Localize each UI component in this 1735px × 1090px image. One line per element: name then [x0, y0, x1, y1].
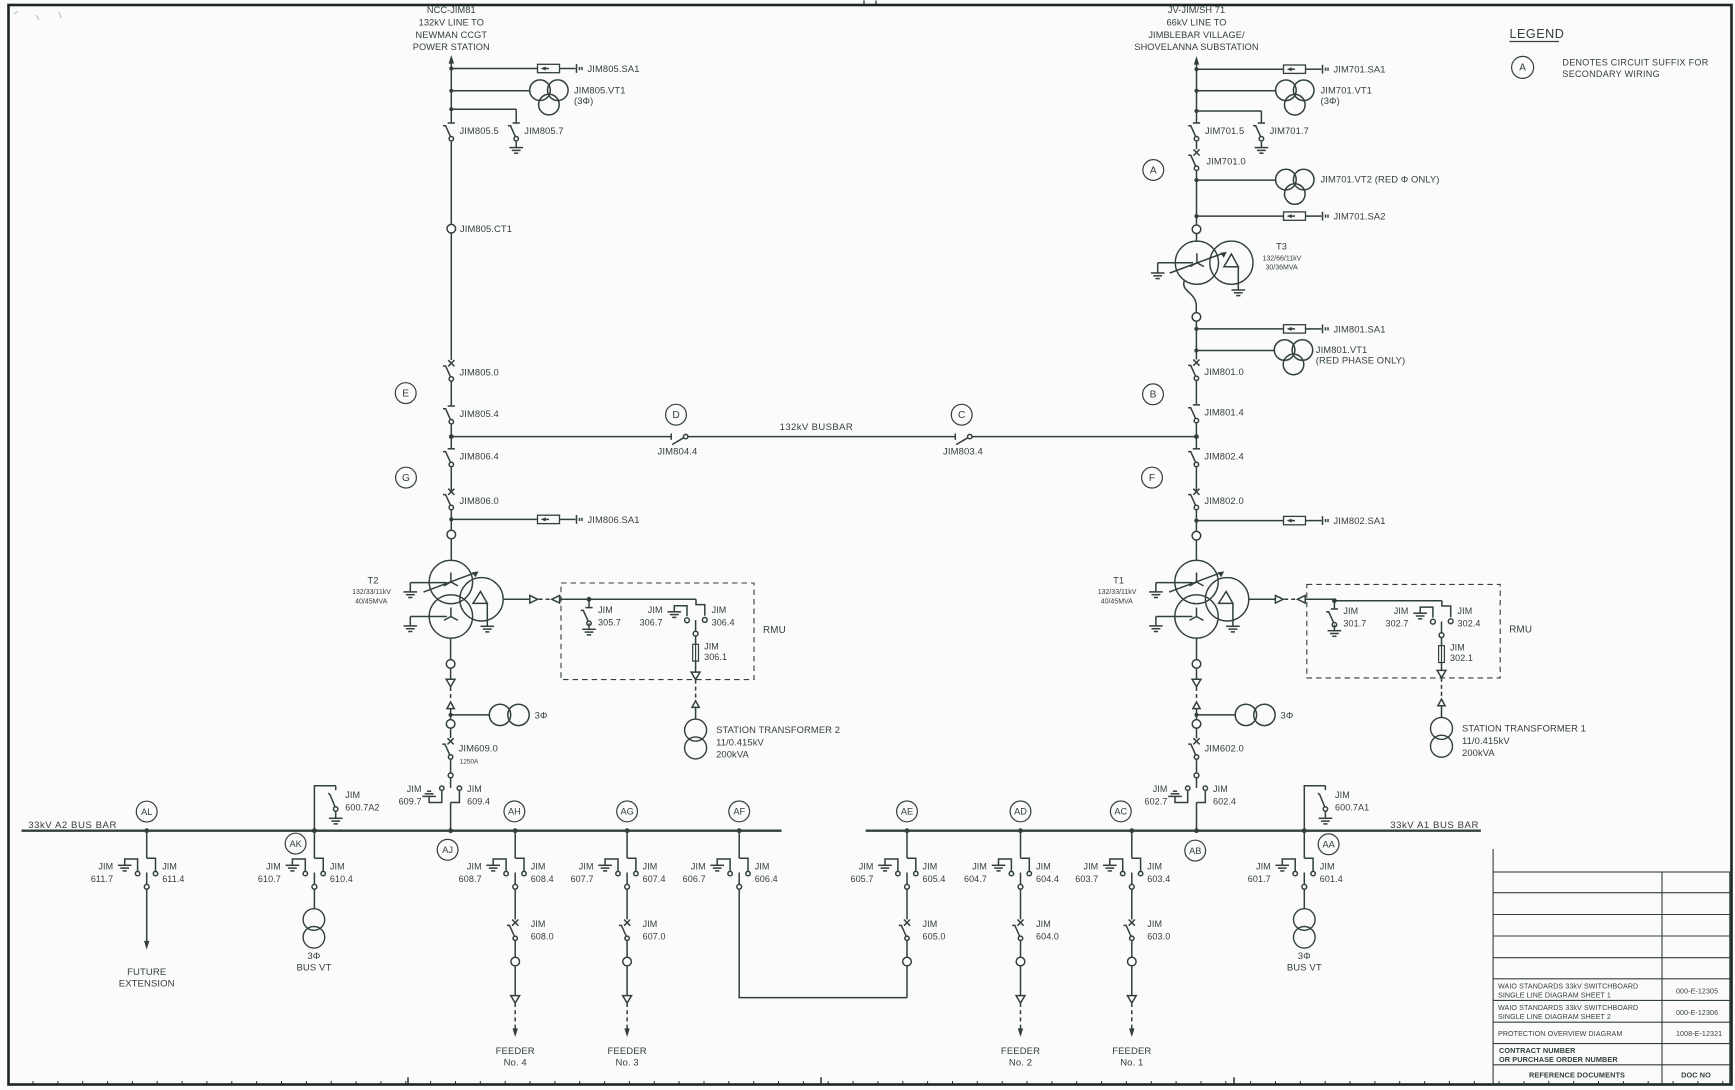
RMU internal wire: [1334, 600, 1442, 602]
LV delta ground: [1237, 267, 1239, 290]
HV neutral wire: [1156, 582, 1193, 584]
earth switch JIM805.7: [513, 122, 520, 124]
transformer T2 tertiary winding: [460, 578, 503, 621]
LV neutral wire: [1156, 616, 1193, 618]
wire: [1196, 170, 1198, 225]
svg-text:JIM806.4: JIM806.4: [460, 451, 499, 462]
svg-text:JIM: JIM: [1256, 862, 1271, 872]
transformer T1 HV winding: [1175, 560, 1218, 603]
circuit breaker JIM 603.0: [1129, 920, 1135, 926]
surge arrester JIM802.SA1: [1194, 519, 1198, 523]
circuit suffix F: [1142, 467, 1163, 488]
truck contact: [313, 873, 315, 885]
svg-text:E: E: [402, 388, 409, 399]
svg-text:611.7: 611.7: [91, 874, 113, 884]
withdrawable feeder JIM603: [1129, 828, 1134, 833]
feeder arrow: [514, 1026, 516, 1030]
svg-text:No. 2: No. 2: [1009, 1057, 1032, 1068]
svg-text:605.0: 605.0: [923, 931, 946, 941]
ground: [598, 864, 612, 866]
dashed cable: [1196, 687, 1198, 701]
earth contact 602.7: [1186, 786, 1190, 790]
current transformer: [1192, 531, 1201, 540]
circuit suffix B: [1143, 384, 1164, 405]
busbar contact 302.4: [1448, 619, 1453, 624]
ground: [1319, 817, 1333, 819]
busbar contact 602.4: [1203, 786, 1207, 790]
svg-text:JIM: JIM: [755, 862, 770, 872]
star symbol: [1190, 253, 1204, 266]
wire: [450, 709, 452, 739]
fuse 306.1: [693, 644, 699, 661]
wire: [450, 510, 452, 531]
voltage transformer JIM801.VT1: [1194, 348, 1198, 352]
svg-text:EXTENSION: EXTENSION: [119, 979, 175, 990]
cable head arrow: [447, 702, 454, 709]
bus voltage transformer: [303, 909, 325, 931]
svg-text:306.1: 306.1: [704, 652, 727, 662]
earth contact 606.7: [717, 859, 730, 871]
wire riser from bus: [146, 831, 148, 859]
title block: [1493, 849, 1730, 1084]
svg-text:606.4: 606.4: [755, 874, 778, 884]
tap changer arrow: [1170, 253, 1224, 273]
svg-text:SHOVELANNA SUBSTATION: SHOVELANNA SUBSTATION: [1134, 42, 1258, 52]
svg-text:66kV LINE TO: 66kV LINE TO: [1166, 17, 1226, 27]
wire riser from bus: [313, 831, 315, 859]
wire future extension: [146, 889, 148, 941]
busbar contact 606.4: [739, 858, 748, 871]
truck contact: [1303, 873, 1305, 885]
wire riser from bus: [1303, 831, 1305, 859]
circuit suffix AC: [1110, 801, 1131, 822]
current transformer: [1128, 957, 1137, 966]
svg-text:AE: AE: [901, 807, 913, 817]
circuit breaker JIM 607.0: [624, 920, 630, 926]
transformer T2 HV winding: [429, 560, 472, 603]
svg-text:JIM: JIM: [407, 784, 422, 794]
ground: [118, 864, 132, 866]
current transformer: [1192, 660, 1201, 669]
svg-text:LEGEND: LEGEND: [1510, 27, 1565, 41]
svg-text:JIM: JIM: [1450, 643, 1465, 653]
circuit suffix AH: [504, 801, 525, 822]
circuit suffix AE: [897, 801, 918, 822]
svg-text:JIM: JIM: [1147, 862, 1162, 872]
svg-text:JIM805.4: JIM805.4: [460, 408, 499, 419]
svg-text:JIM: JIM: [1153, 784, 1168, 794]
wire: [1195, 321, 1197, 359]
withdrawable feeder JIM605: [905, 828, 910, 833]
wire: [450, 466, 452, 491]
wire: [1441, 706, 1443, 718]
svg-text:604.4: 604.4: [1036, 874, 1059, 884]
svg-text:B: B: [1150, 390, 1157, 401]
line arrow up: [449, 55, 454, 64]
svg-text:603.7: 603.7: [1075, 874, 1098, 884]
withdrawable feeder JIM610 (bus VT): [312, 828, 317, 833]
svg-text:602.4: 602.4: [1213, 796, 1236, 806]
earth switch JIM701.7: [1258, 122, 1265, 124]
circuit breaker JIM802.0: [1193, 489, 1199, 495]
svg-text:FEEDER: FEEDER: [1001, 1046, 1040, 1057]
ground: [992, 864, 1006, 866]
earth contact 605.7: [885, 859, 898, 871]
withdrawable feeder JIM611 (future): [144, 828, 149, 833]
svg-text:609.4: 609.4: [467, 796, 490, 806]
svg-text:No. 4: No. 4: [504, 1057, 527, 1068]
svg-text:AH: AH: [508, 807, 521, 817]
wire: [450, 759, 452, 773]
svg-text:JIM802.SA1: JIM802.SA1: [1334, 515, 1386, 526]
svg-text:JIM: JIM: [467, 862, 482, 872]
dashed cable: [450, 687, 452, 701]
svg-text:1250A: 1250A: [460, 759, 479, 766]
svg-text:JIM: JIM: [1458, 606, 1473, 616]
tap changer arrow: [424, 572, 476, 592]
svg-text:AC: AC: [1114, 807, 1127, 817]
current transformer: [511, 957, 520, 966]
svg-text:302.7: 302.7: [1385, 619, 1408, 629]
circuit breaker JIM602.0: [1193, 738, 1199, 744]
svg-text:No. 3: No. 3: [615, 1057, 638, 1068]
svg-text:AL: AL: [141, 807, 152, 817]
svg-text:JIM602.0: JIM602.0: [1205, 743, 1244, 754]
svg-text:T1: T1: [1113, 576, 1124, 586]
dashed cable: [695, 680, 697, 701]
wire into T3: [1196, 234, 1198, 242]
truck contact: [626, 873, 628, 885]
withdrawable feeder JIM606 (interconnector): [737, 828, 742, 833]
cable head arrow: [692, 701, 699, 708]
current transformer: [446, 720, 455, 729]
surge arrester JIM801.SA1: [1194, 327, 1198, 331]
ground: [1276, 864, 1290, 866]
wire: [1195, 466, 1197, 491]
feeder arrow: [1020, 1026, 1022, 1030]
dashed cable: [539, 598, 552, 600]
svg-text:WAIO STANDARDS 33kV SWITCHBOAR: WAIO STANDARDS 33kV SWITCHBOARD: [1498, 1004, 1638, 1012]
wire: [626, 889, 628, 919]
svg-text:JIM803.4: JIM803.4: [943, 447, 983, 458]
truck contact: [514, 873, 516, 885]
svg-text:11/0.415kV: 11/0.415kV: [1462, 735, 1510, 746]
LV neutral ground: [409, 617, 411, 626]
connector arrow: [530, 596, 538, 604]
withdrawable feeder JIM604: [1018, 828, 1023, 833]
svg-text:200kVA: 200kVA: [716, 749, 749, 760]
current transformer: [1192, 313, 1201, 322]
wire: [514, 889, 516, 919]
circuit suffix C: [951, 404, 972, 425]
truck contact: [448, 773, 453, 778]
HV neutral ground: [1157, 263, 1159, 273]
svg-text:JIM805.VT1: JIM805.VT1: [574, 84, 626, 95]
svg-text:JIM: JIM: [531, 862, 546, 872]
RMU enclosure (dashed): [1307, 584, 1500, 678]
transformer T1 LV winding: [1175, 595, 1218, 638]
svg-text:605.4: 605.4: [923, 874, 946, 884]
wire: [695, 636, 697, 644]
circuit suffix AB: [1185, 840, 1206, 861]
svg-text:JIM: JIM: [330, 862, 345, 872]
disconnector JIM802.4: [1195, 437, 1197, 449]
wire: [1196, 709, 1198, 739]
svg-text:200kVA: 200kVA: [1462, 747, 1495, 758]
svg-text:NCC-JIM81: NCC-JIM81: [427, 5, 476, 15]
wire: [450, 141, 452, 225]
current transformer: [1192, 225, 1201, 234]
svg-text:RMU: RMU: [763, 625, 786, 636]
svg-text:000-E-12305: 000-E-12305: [1676, 988, 1718, 996]
svg-text:JIM701.5: JIM701.5: [1205, 125, 1244, 136]
circuit suffix E: [395, 383, 416, 404]
transformer T1 tertiary winding: [1205, 578, 1248, 621]
wire: [1020, 889, 1022, 919]
svg-text:JIM806.0: JIM806.0: [460, 495, 499, 506]
svg-text:T2: T2: [368, 576, 379, 586]
svg-text:604.7: 604.7: [964, 874, 987, 884]
svg-text:JIM: JIM: [162, 862, 177, 872]
earth contact 601.7: [1282, 859, 1295, 871]
wire to busbar: [450, 424, 452, 437]
svg-text:G: G: [402, 473, 410, 484]
wire: [695, 707, 697, 719]
svg-text:JIM: JIM: [1213, 784, 1228, 794]
busbar contact 611.4: [147, 858, 156, 871]
svg-text:608.7: 608.7: [459, 874, 482, 884]
svg-text:JIM701.VT1: JIM701.VT1: [1321, 84, 1373, 95]
svg-text:JIM: JIM: [643, 919, 658, 929]
busbar contact 608.4: [515, 858, 524, 871]
svg-text:JIM: JIM: [648, 605, 663, 615]
svg-text:JIM609.0: JIM609.0: [459, 743, 498, 754]
star symbol HV: [1190, 573, 1204, 586]
wire T1 tertiary output: [1249, 598, 1275, 600]
svg-text:WAIO STANDARDS 33kV SWITCHBOAR: WAIO STANDARDS 33kV SWITCHBOARD: [1498, 983, 1638, 991]
wire: [626, 966, 628, 996]
svg-text:T3: T3: [1276, 242, 1287, 252]
svg-text:DOC NO: DOC NO: [1681, 1071, 1711, 1080]
svg-text:AK: AK: [289, 839, 302, 849]
svg-text:JIM701.VT2 (RED Φ ONLY): JIM701.VT2 (RED Φ ONLY): [1321, 174, 1440, 185]
surge arrester JIM805.SA1: [449, 66, 453, 70]
transformer T3 HV winding: [1175, 241, 1218, 284]
HV neutral wire: [410, 582, 447, 584]
circuit suffix AF: [729, 801, 750, 822]
truck contact: [1131, 873, 1133, 885]
132kV busbar: [972, 436, 1196, 438]
svg-text:JIM: JIM: [923, 919, 938, 929]
tap changer arrow: [1169, 572, 1221, 592]
wire: [1020, 966, 1022, 996]
svg-text:AD: AD: [1014, 807, 1027, 817]
earth contact 604.7: [999, 859, 1012, 871]
svg-text:AA: AA: [1322, 840, 1335, 850]
circuit suffix AA: [1318, 834, 1339, 855]
wire from transformer LV: [1196, 638, 1198, 659]
svg-text:JIM: JIM: [345, 790, 360, 800]
svg-text:REFERENCE DOCUMENTS: REFERENCE DOCUMENTS: [1529, 1071, 1625, 1080]
wire: [1303, 889, 1305, 908]
delta symbol: [1224, 254, 1238, 267]
33kV A2 busbar: [22, 830, 782, 832]
svg-text:FUTURE: FUTURE: [127, 967, 166, 978]
ground: [1103, 864, 1117, 866]
ground: [286, 864, 300, 866]
svg-text:611.4: 611.4: [162, 874, 184, 884]
delta symbol: [1219, 592, 1233, 604]
earth contact 608.7: [493, 859, 506, 871]
wire: [1196, 668, 1198, 679]
svg-text:605.7: 605.7: [850, 874, 873, 884]
svg-text:POWER STATION: POWER STATION: [413, 42, 490, 52]
ground: [515, 141, 517, 148]
svg-text:600.7A2: 600.7A2: [345, 803, 379, 813]
svg-text:OR PURCHASE ORDER NUMBER: OR PURCHASE ORDER NUMBER: [1499, 1055, 1618, 1064]
dashed cable: [1020, 1003, 1022, 1026]
svg-text:609.7: 609.7: [399, 796, 422, 806]
svg-text:JIM: JIM: [98, 862, 113, 872]
HV neutral wire: [1158, 262, 1193, 264]
svg-text:33kV A1 BUS BAR: 33kV A1 BUS BAR: [1390, 820, 1479, 831]
bus section disconnector JIM804.4: [670, 433, 672, 439]
wire JIM701 incoming: [1196, 63, 1198, 123]
withdrawable feeder JIM607: [625, 828, 630, 833]
busbar contact 306.4: [702, 618, 707, 623]
bus earthing switch JIM 600.7A1: [1304, 786, 1325, 831]
circuit suffix AG: [617, 801, 638, 822]
wire from T3 (curved): [1184, 280, 1197, 306]
voltage transformer JIM701.VT1: [1194, 89, 1198, 93]
current transformer JIM805.CT1: [447, 224, 456, 233]
wire interconnector: [739, 889, 907, 997]
svg-text:608.4: 608.4: [531, 874, 554, 884]
svg-text:AB: AB: [1189, 846, 1201, 856]
wire: [906, 941, 908, 958]
earth contact 611.7: [125, 859, 138, 871]
ground (inverted): [422, 795, 436, 797]
svg-text:1008-E-12321: 1008-E-12321: [1676, 1030, 1722, 1038]
svg-text:JIM: JIM: [1335, 790, 1350, 800]
svg-text:JIM: JIM: [266, 862, 281, 872]
wire: [1131, 966, 1133, 996]
svg-text:STATION TRANSFORMER 1: STATION TRANSFORMER 1: [1462, 722, 1586, 733]
svg-text:603.4: 603.4: [1147, 874, 1170, 884]
svg-text:FEEDER: FEEDER: [496, 1046, 535, 1057]
svg-text:BUS VT: BUS VT: [1287, 963, 1322, 974]
svg-text:JIM805.CT1: JIM805.CT1: [460, 223, 512, 234]
svg-text:132kV LINE TO: 132kV LINE TO: [419, 17, 484, 27]
feeder arrow: [1131, 1026, 1133, 1030]
svg-text:JIM701.0: JIM701.0: [1206, 156, 1245, 167]
circuit breaker JIM 608.0: [512, 920, 518, 926]
cable head arrow: [1437, 670, 1446, 677]
wire T2 tertiary output: [503, 598, 529, 600]
disconnector JIM801.4: [1193, 404, 1200, 406]
svg-text:132/33/11kV: 132/33/11kV: [1098, 589, 1137, 596]
svg-text:3Φ: 3Φ: [535, 710, 548, 721]
svg-text:JIM806.SA1: JIM806.SA1: [588, 514, 640, 525]
svg-text:602.7: 602.7: [1144, 796, 1167, 806]
svg-text:D: D: [672, 410, 679, 421]
connector arrow: [1275, 596, 1283, 604]
svg-text:F: F: [1149, 473, 1155, 484]
svg-text:JIM801.0: JIM801.0: [1204, 366, 1243, 377]
dashed cable: [626, 1003, 628, 1026]
cable head arrow: [1016, 996, 1025, 1003]
wire to bus: [450, 803, 452, 831]
svg-text:JIM805.7: JIM805.7: [524, 125, 563, 136]
circuit breaker JIM 605.0: [904, 920, 910, 926]
LV neutral ground: [1155, 617, 1157, 626]
svg-text:CONTRACT NUMBER: CONTRACT NUMBER: [1499, 1046, 1576, 1055]
svg-text:JIM: JIM: [531, 919, 546, 929]
HV neutral ground: [1155, 583, 1157, 592]
station transformer: [685, 719, 707, 741]
busbar contact 601.4: [1304, 858, 1313, 871]
svg-text:JIMBLEBAR VILLAGE/: JIMBLEBAR VILLAGE/: [1148, 30, 1245, 40]
wire: [450, 233, 452, 360]
truck contact: [906, 873, 908, 885]
svg-text:JIM801.SA1: JIM801.SA1: [1334, 323, 1386, 334]
svg-text:608.0: 608.0: [531, 931, 554, 941]
surge arrester JIM701.SA1: [1194, 67, 1198, 71]
svg-text:302.1: 302.1: [1450, 653, 1473, 663]
svg-text:A: A: [1519, 63, 1526, 74]
withdrawable feeder JIM601 (bus VT): [1302, 828, 1307, 833]
wire riser from bus: [738, 831, 740, 859]
node: [1194, 828, 1199, 833]
svg-text:JIM802.4: JIM802.4: [1204, 451, 1243, 462]
truck contact: [146, 873, 148, 885]
svg-text:JIM: JIM: [467, 784, 482, 794]
busbar contact 610.4: [314, 858, 323, 871]
svg-text:AG: AG: [620, 807, 633, 817]
svg-text:JIM: JIM: [598, 605, 613, 615]
wire riser from bus: [514, 831, 516, 859]
svg-text:JIM701.SA2: JIM701.SA2: [1334, 211, 1386, 222]
wire: [514, 966, 516, 996]
RMU enclosure (dashed): [561, 583, 754, 680]
svg-text:3Φ: 3Φ: [307, 951, 320, 962]
svg-text:JIM: JIM: [691, 862, 706, 872]
ground (inverted): [1168, 795, 1182, 797]
circuit suffix AK: [285, 833, 306, 854]
svg-text:A: A: [1150, 165, 1157, 176]
cable head arrow: [511, 996, 520, 1003]
svg-text:30/36MVA: 30/36MVA: [1266, 264, 1298, 271]
circuit breaker JIM801.0: [1193, 360, 1199, 366]
ground: [329, 817, 343, 819]
voltage transformer JIM701.VT2: [1194, 178, 1198, 182]
ground: [668, 611, 682, 613]
LV neutral wire: [410, 616, 447, 618]
svg-text:JIM: JIM: [712, 605, 727, 615]
cable head arrow: [691, 672, 700, 679]
wire: [1441, 663, 1443, 671]
circuit breaker JIM805.0: [448, 360, 454, 366]
svg-text:DENOTES CIRCUIT SUFFIX FOR: DENOTES CIRCUIT SUFFIX FOR: [1562, 57, 1708, 67]
wire riser from bus: [626, 831, 628, 859]
wire: [626, 941, 628, 958]
svg-text:NEWMAN CCGT: NEWMAN CCGT: [416, 30, 488, 40]
svg-text:610.4: 610.4: [330, 874, 353, 884]
disconnector JIM805.4: [448, 405, 455, 407]
svg-text:132kV BUSBAR: 132kV BUSBAR: [780, 422, 853, 433]
dashed cable: [1284, 598, 1297, 600]
cable head arrow: [446, 679, 455, 686]
